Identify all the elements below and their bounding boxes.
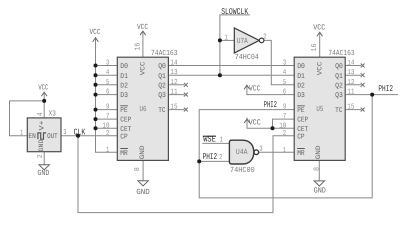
svg-text:MR: MR bbox=[120, 150, 128, 158]
svg-text:D2: D2 bbox=[120, 82, 128, 90]
svg-text:Q3: Q3 bbox=[335, 92, 343, 100]
svg-text:6: 6 bbox=[283, 89, 286, 97]
svg-text:12: 12 bbox=[170, 79, 177, 87]
svg-text:X3: X3 bbox=[49, 110, 56, 119]
svg-text:GND: GND bbox=[314, 187, 327, 196]
svg-text:74AC163: 74AC163 bbox=[151, 49, 178, 58]
svg-text:GND: GND bbox=[315, 146, 323, 160]
svg-text:CEP: CEP bbox=[120, 117, 131, 125]
svg-text:7: 7 bbox=[283, 113, 286, 121]
svg-text:9: 9 bbox=[106, 104, 109, 112]
svg-text:Q2: Q2 bbox=[158, 82, 166, 90]
svg-text:PHI2: PHI2 bbox=[264, 100, 277, 110]
svg-text:U6: U6 bbox=[140, 105, 147, 114]
svg-text:Q1: Q1 bbox=[158, 73, 166, 81]
svg-text:PHI2: PHI2 bbox=[378, 84, 393, 94]
svg-text:8: 8 bbox=[134, 167, 142, 171]
svg-text:D0: D0 bbox=[120, 63, 128, 71]
svg-text:VCC: VCC bbox=[137, 23, 148, 32]
svg-text:1: 1 bbox=[20, 130, 24, 138]
svg-text:2: 2 bbox=[283, 130, 286, 138]
svg-text:14: 14 bbox=[170, 60, 178, 68]
svg-text:12: 12 bbox=[347, 79, 354, 87]
svg-text:Q1: Q1 bbox=[335, 73, 343, 81]
svg-text:15: 15 bbox=[347, 104, 354, 112]
svg-text:1: 1 bbox=[225, 34, 229, 42]
svg-text:D2: D2 bbox=[297, 82, 305, 90]
svg-text:Q0: Q0 bbox=[335, 63, 343, 71]
svg-text:V+: V+ bbox=[39, 121, 47, 131]
svg-text:PE: PE bbox=[120, 107, 127, 115]
svg-text:GND: GND bbox=[38, 140, 46, 152]
svg-text:D3: D3 bbox=[120, 92, 128, 100]
svg-text:CP: CP bbox=[297, 133, 304, 141]
svg-text:D1: D1 bbox=[297, 73, 305, 81]
svg-text:PHI2: PHI2 bbox=[203, 152, 218, 162]
svg-text:74HC04: 74HC04 bbox=[235, 53, 260, 62]
svg-text:TC: TC bbox=[335, 107, 343, 115]
svg-text:VCC: VCC bbox=[316, 62, 324, 76]
svg-text:6: 6 bbox=[106, 89, 109, 97]
svg-text:VCC: VCC bbox=[90, 28, 101, 37]
svg-text:2: 2 bbox=[37, 154, 45, 158]
svg-text:15: 15 bbox=[170, 104, 177, 112]
svg-text:EN: EN bbox=[28, 133, 35, 141]
svg-text:11: 11 bbox=[347, 89, 355, 97]
svg-text:74AC163: 74AC163 bbox=[328, 49, 355, 58]
svg-text:CEP: CEP bbox=[297, 117, 308, 125]
svg-text:16: 16 bbox=[311, 44, 319, 52]
svg-text:13: 13 bbox=[170, 69, 177, 77]
svg-text:5: 5 bbox=[283, 79, 286, 87]
svg-text:2: 2 bbox=[106, 130, 109, 138]
svg-text:14: 14 bbox=[347, 60, 355, 68]
svg-text:GND: GND bbox=[139, 146, 147, 160]
svg-text:CLK: CLK bbox=[74, 127, 86, 137]
svg-text:GND: GND bbox=[37, 169, 49, 178]
svg-text:VCC: VCC bbox=[140, 62, 148, 76]
svg-text:TC: TC bbox=[158, 107, 166, 115]
svg-text:9: 9 bbox=[283, 104, 286, 112]
svg-text:CP: CP bbox=[120, 133, 127, 141]
svg-text:4: 4 bbox=[106, 69, 110, 77]
svg-text:VCC: VCC bbox=[313, 24, 325, 33]
svg-text:Q3: Q3 bbox=[158, 92, 166, 100]
svg-text:13: 13 bbox=[347, 69, 354, 77]
svg-text:3: 3 bbox=[283, 60, 286, 68]
svg-text:1: 1 bbox=[283, 147, 287, 155]
svg-text:D1: D1 bbox=[120, 73, 128, 81]
svg-text:GND: GND bbox=[136, 188, 150, 197]
svg-text:PE: PE bbox=[297, 107, 304, 115]
svg-text:3: 3 bbox=[259, 146, 262, 154]
svg-text:16: 16 bbox=[134, 43, 142, 51]
svg-text:U4A: U4A bbox=[236, 148, 248, 157]
svg-text:SLOWCLK: SLOWCLK bbox=[221, 7, 249, 17]
svg-text:U5: U5 bbox=[316, 105, 323, 114]
svg-text:VCC: VCC bbox=[38, 83, 48, 92]
svg-text:D0: D0 bbox=[297, 63, 305, 71]
svg-text:2: 2 bbox=[219, 154, 222, 162]
svg-text:3: 3 bbox=[106, 60, 109, 68]
svg-text:7: 7 bbox=[106, 113, 109, 121]
svg-text:11: 11 bbox=[170, 89, 178, 97]
svg-text:4: 4 bbox=[37, 112, 45, 117]
svg-text:Q2: Q2 bbox=[335, 82, 343, 90]
svg-text:2: 2 bbox=[263, 33, 266, 41]
svg-text:U7A: U7A bbox=[237, 37, 248, 46]
svg-text:5: 5 bbox=[106, 79, 109, 87]
svg-text:1: 1 bbox=[220, 137, 224, 145]
svg-text:1: 1 bbox=[106, 146, 110, 154]
svg-text:4: 4 bbox=[283, 69, 287, 77]
svg-text:D3: D3 bbox=[297, 92, 305, 100]
svg-text:Q0: Q0 bbox=[158, 63, 166, 71]
svg-text:OUT: OUT bbox=[47, 133, 58, 141]
svg-text:VCC: VCC bbox=[249, 85, 261, 94]
svg-text:MR: MR bbox=[297, 150, 305, 158]
svg-text:3: 3 bbox=[63, 129, 66, 137]
svg-text:VCC: VCC bbox=[249, 119, 261, 128]
svg-text:8: 8 bbox=[313, 167, 321, 171]
svg-text:74HC00: 74HC00 bbox=[230, 166, 255, 175]
